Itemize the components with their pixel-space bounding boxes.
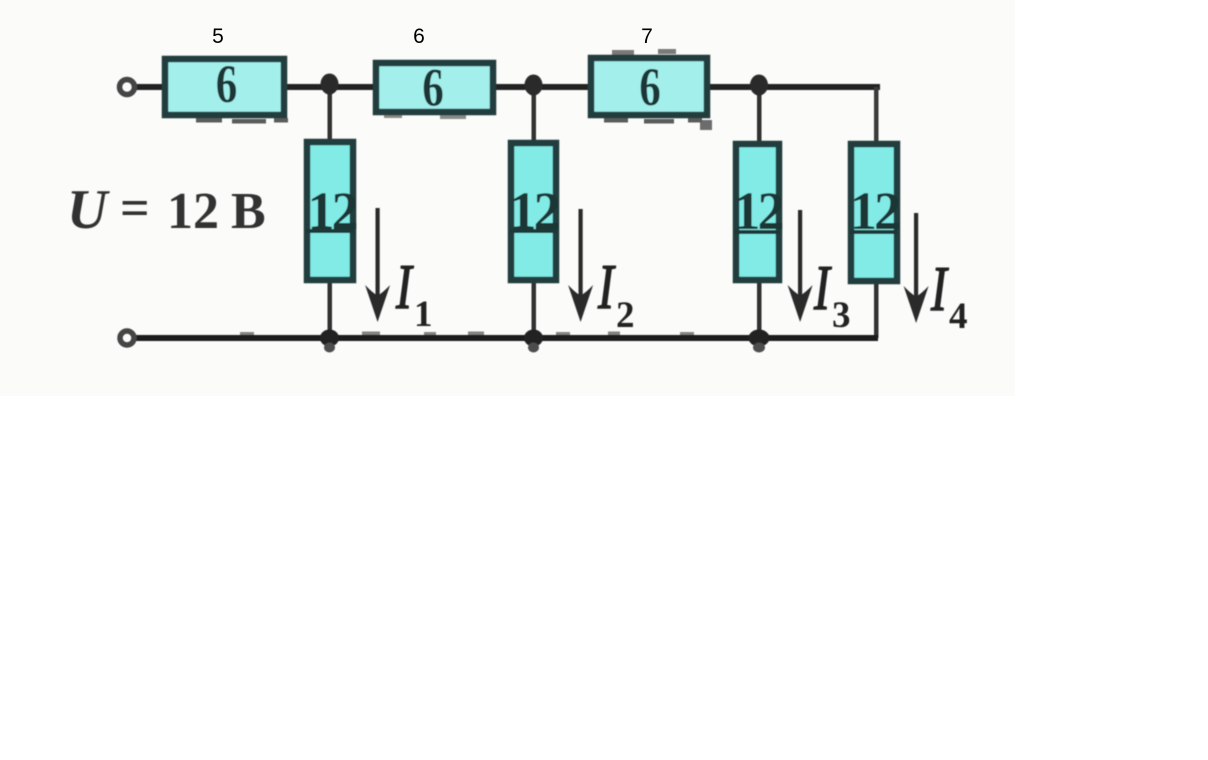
svg-text:6: 6 xyxy=(413,25,425,48)
svg-text:2: 2 xyxy=(616,295,635,336)
svg-text:12: 12 xyxy=(510,181,559,241)
svg-text:6: 6 xyxy=(422,57,444,118)
svg-text:I: I xyxy=(930,254,949,324)
svg-text:I: I xyxy=(597,252,616,322)
svg-text:4: 4 xyxy=(949,296,968,337)
svg-text:12: 12 xyxy=(167,183,219,240)
svg-text:1: 1 xyxy=(414,294,433,335)
svg-text:7: 7 xyxy=(641,25,653,48)
svg-text:12: 12 xyxy=(734,181,783,241)
svg-text:6: 6 xyxy=(639,56,661,117)
svg-text:I: I xyxy=(813,253,832,323)
svg-text:=: = xyxy=(120,180,150,237)
svg-text:6: 6 xyxy=(216,53,238,114)
svg-text:В: В xyxy=(231,183,266,240)
svg-text:12: 12 xyxy=(850,181,899,241)
svg-text:U: U xyxy=(67,179,110,241)
svg-text:3: 3 xyxy=(832,295,851,336)
svg-text:I: I xyxy=(395,252,414,322)
svg-text:12: 12 xyxy=(308,181,357,241)
svg-text:5: 5 xyxy=(212,25,224,48)
